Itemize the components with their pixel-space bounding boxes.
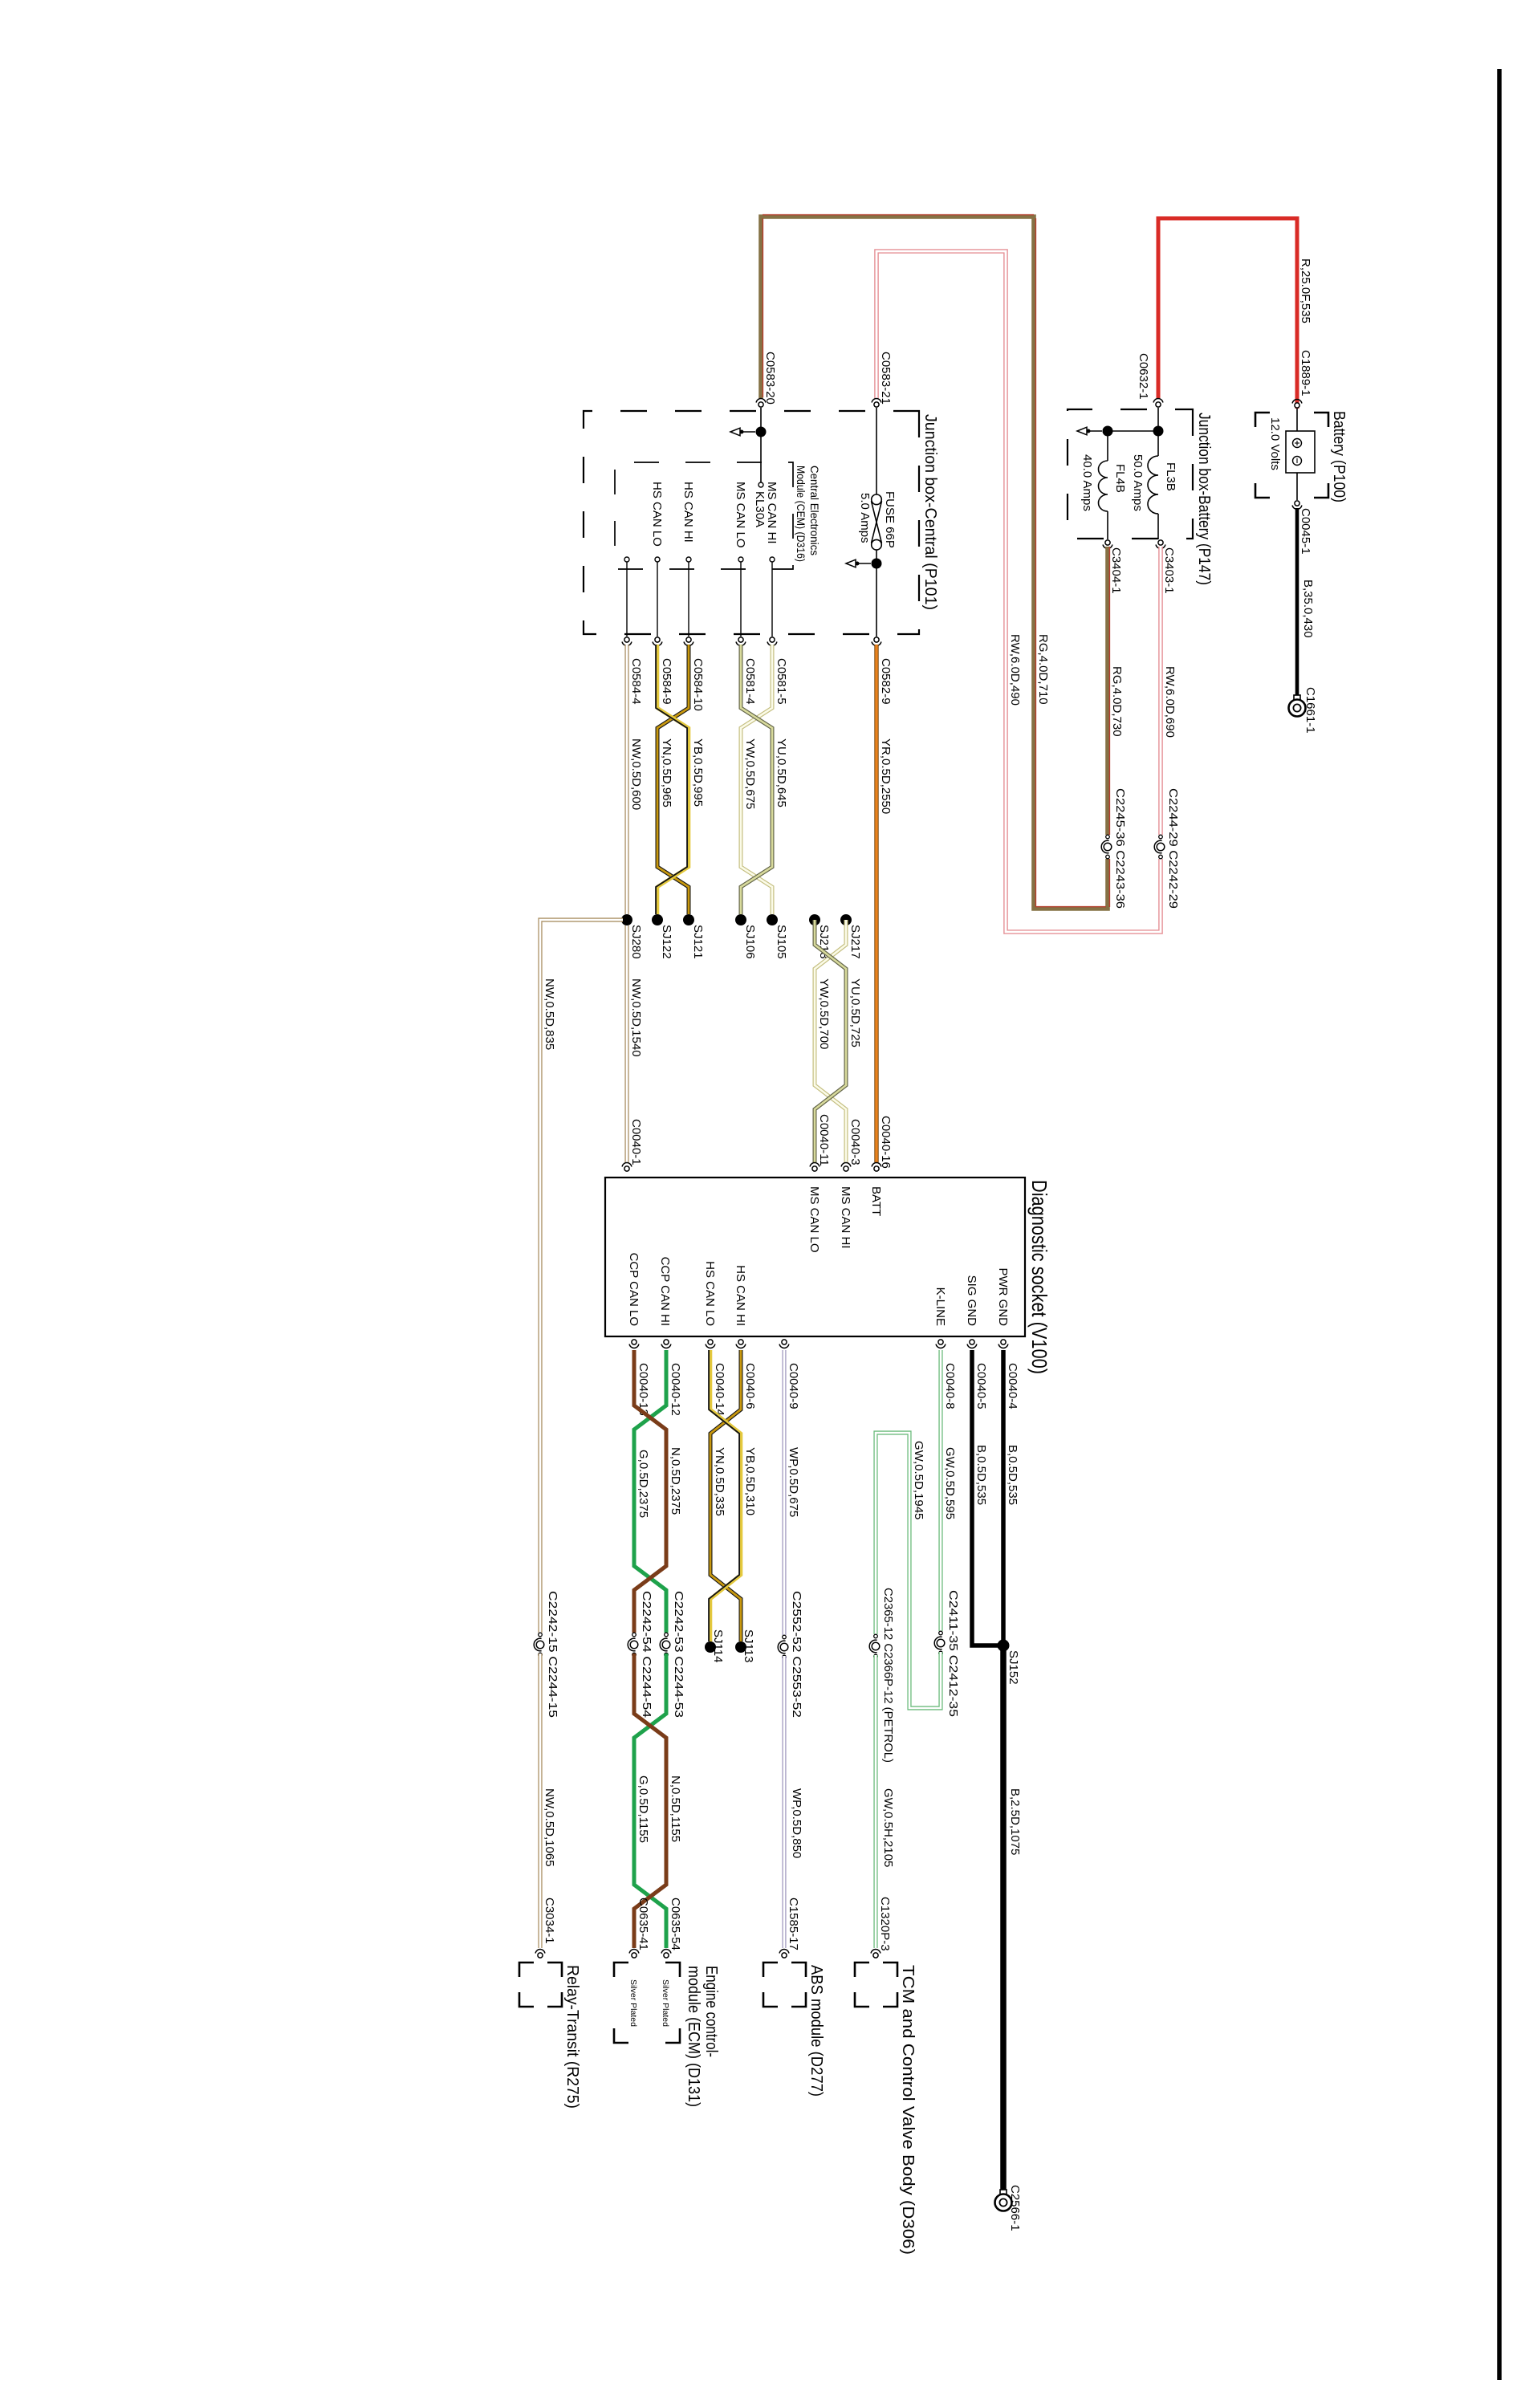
svg-text:C0040-4: C0040-4 <box>1006 1363 1019 1409</box>
connector C0040-11 <box>812 1166 817 1171</box>
connector C0583-21 <box>874 402 879 407</box>
pin shield <box>624 557 629 562</box>
svg-text:YU,0.5D,645: YU,0.5D,645 <box>775 738 788 807</box>
pin MS CAN LO <box>738 557 743 562</box>
wire RW,6.0D,690 / RW,6.0D,490 pink loop <box>876 251 1161 932</box>
svg-text:C0635-41: C0635-41 <box>636 1898 650 1950</box>
wire YU,0.5D,645 MS CAN pair <box>741 645 772 914</box>
connector C0582-9 <box>874 637 879 642</box>
svg-text:HS CAN HI: HS CAN HI <box>681 482 695 543</box>
svg-text:NW,0.5D,1065: NW,0.5D,1065 <box>543 1788 556 1867</box>
svg-text:12.0 Volts: 12.0 Volts <box>1268 417 1282 470</box>
arrow splice fuse output <box>857 563 871 564</box>
connector C0040-9 <box>782 1340 787 1344</box>
svg-text:RG,4.0D,730: RG,4.0D,730 <box>1110 666 1124 737</box>
svg-text:SJ280: SJ280 <box>629 925 643 959</box>
node SJ106 <box>735 914 746 925</box>
connector C0583-20 <box>758 402 763 407</box>
svg-text:HS CAN LO: HS CAN LO <box>703 1261 717 1326</box>
connector C3404-1 <box>1105 540 1110 545</box>
svg-text:RW,6.0D,690: RW,6.0D,690 <box>1163 666 1177 738</box>
page border line <box>1497 69 1502 2380</box>
node SJ280 <box>621 914 632 925</box>
svg-text:YN,0.5D,965: YN,0.5D,965 <box>660 738 673 807</box>
ABS module bracket <box>791 1963 806 1977</box>
svg-text:SJ217: SJ217 <box>848 925 862 959</box>
connector C0040-1 <box>624 1166 629 1171</box>
svg-text:SJ122: SJ122 <box>660 925 673 959</box>
connector C3034-1 <box>538 1953 543 1958</box>
svg-text:C0582-9: C0582-9 <box>879 658 893 705</box>
svg-text:C2411-35 C2412-35: C2411-35 C2412-35 <box>946 1590 960 1717</box>
wire FL3B to C3403-1 <box>1157 514 1159 539</box>
wire FL4B lane <box>1107 431 1108 461</box>
svg-text:B,0.5D,535: B,0.5D,535 <box>974 1445 988 1505</box>
svg-text:K-LINE: K-LINE <box>933 1287 947 1326</box>
svg-text:Relay-Transit (R275): Relay-Transit (R275) <box>563 1965 582 2109</box>
svg-text:N,0.5D,2375: N,0.5D,2375 <box>669 1447 682 1515</box>
svg-text:5.0 Amps: 5.0 Amps <box>858 493 872 543</box>
svg-text:MS CAN LO: MS CAN LO <box>807 1186 821 1253</box>
svg-text:C3404-1: C3404-1 <box>1109 547 1123 594</box>
svg-text:C0584-10: C0584-10 <box>691 658 705 711</box>
svg-text:B,2.5D,1075: B,2.5D,1075 <box>1008 1788 1022 1855</box>
wire NW,0.5D,835 branch <box>540 920 623 1636</box>
svg-text:C1585-17: C1585-17 <box>787 1898 800 1950</box>
svg-text:Battery (P100): Battery (P100) <box>1330 411 1348 502</box>
wire NW,0.5D,600 <box>624 645 628 914</box>
pin HS CAN HI <box>686 557 691 562</box>
svg-text:C2242-54 C2244-54: C2242-54 C2244-54 <box>640 1591 653 1718</box>
connector C0584-9 <box>655 637 660 642</box>
wire fuse output <box>876 550 877 637</box>
TCM and Control Valve Body bracket <box>883 1963 897 1977</box>
pin KL30A <box>758 482 763 487</box>
connector C1320P-3 <box>873 1953 878 1958</box>
svg-text:B,35.0,430: B,35.0,430 <box>1301 580 1315 638</box>
fusible link FL4B <box>1099 461 1108 511</box>
node fuse output junction <box>872 559 882 569</box>
svg-text:SJ114: SJ114 <box>711 1629 725 1662</box>
svg-text:MS CAN HI: MS CAN HI <box>765 482 779 544</box>
svg-text:RG,4.0D,710: RG,4.0D,710 <box>1036 634 1050 705</box>
svg-text:YB,0.5D,995: YB,0.5D,995 <box>691 738 705 807</box>
svg-text:C0040-5: C0040-5 <box>974 1363 988 1409</box>
connector C0635-41 <box>632 1953 636 1958</box>
connector C0040-13 <box>632 1340 636 1344</box>
node SJ121 <box>683 914 694 925</box>
svg-text:YB,0.5D,310: YB,0.5D,310 <box>743 1447 757 1515</box>
wire shield pin to C0584-4 <box>626 562 628 637</box>
wire GW,0.5D,595 K-LINE <box>938 1350 942 1634</box>
wire NW,0.5D,1540 <box>624 925 628 1162</box>
node SJ113 <box>735 1641 746 1653</box>
ground ring terminal C1661-1 <box>1294 695 1300 701</box>
central electronics module CEM dashed box <box>615 462 793 569</box>
node SJ105 <box>767 914 778 925</box>
battery positive terminal <box>1293 439 1302 448</box>
svg-text:C2242-15 C2244-15: C2242-15 C2244-15 <box>546 1591 559 1718</box>
wire B,0.5D,535 SIG GND <box>972 1350 1003 1645</box>
connector C0581-4 <box>738 637 743 642</box>
svg-text:C2244-29 C2242-29: C2244-29 C2242-29 <box>1166 788 1180 909</box>
svg-text:YN,0.5D,335: YN,0.5D,335 <box>713 1447 726 1516</box>
svg-text:C0632-1: C0632-1 <box>1137 353 1150 400</box>
svg-text:N,0.5D,1155: N,0.5D,1155 <box>669 1775 682 1842</box>
node FL3B input junction <box>1153 426 1164 437</box>
connector C0584-10 <box>686 637 691 642</box>
svg-text:Silver Plated: Silver Plated <box>628 1979 638 2027</box>
wire NW,0.5D,1065 <box>538 1653 542 1948</box>
svg-text:SJ105: SJ105 <box>775 925 788 959</box>
svg-text:C0584-4: C0584-4 <box>629 658 643 705</box>
node FL4B input junction <box>1103 426 1113 437</box>
engine control module ECM bracket <box>665 1963 680 1977</box>
battery negative terminal <box>1293 457 1302 466</box>
svg-text:C2245-36 C2243-36: C2245-36 C2243-36 <box>1113 788 1127 909</box>
wire R,25.0F,535 battery positive feed <box>1158 218 1297 409</box>
wire GW,0.5D,1945 loop <box>876 1433 941 1708</box>
svg-text:B,0.5D,535: B,0.5D,535 <box>1006 1445 1019 1505</box>
diagnostic socket (V100) box <box>605 1178 1025 1336</box>
node KL30A junction <box>756 427 767 437</box>
pin MS CAN HI <box>770 557 775 562</box>
svg-text:YW,0.5D,675: YW,0.5D,675 <box>743 738 757 809</box>
svg-text:GW,0.5D,1945: GW,0.5D,1945 <box>912 1441 925 1519</box>
svg-text:SJ106: SJ106 <box>743 925 757 959</box>
wire GW,0.5H,2105 <box>873 1655 877 1948</box>
svg-text:GW,0.5H,2105: GW,0.5H,2105 <box>881 1788 895 1867</box>
svg-text:Central Electronics: Central Electronics <box>808 466 821 555</box>
svg-text:40.0 Amps: 40.0 Amps <box>1080 454 1094 511</box>
svg-text:C0635-54: C0635-54 <box>669 1898 682 1950</box>
node SJ217 <box>840 914 852 925</box>
svg-text:SJ152: SJ152 <box>1007 1650 1020 1685</box>
svg-text:C0040-12: C0040-12 <box>669 1363 682 1416</box>
svg-text:Diagnostic socket (V100): Diagnostic socket (V100) <box>1027 1180 1051 1374</box>
svg-text:module (ECM) (D131): module (ECM) (D131) <box>685 1966 703 2107</box>
svg-text:C0040-9: C0040-9 <box>787 1363 800 1409</box>
svg-text:KL30A: KL30A <box>753 491 767 527</box>
battery box <box>1286 431 1315 473</box>
svg-text:HS CAN LO: HS CAN LO <box>650 482 664 547</box>
wire YR,0.5D,2550 BATT feed to diagnostic socket <box>874 645 878 1162</box>
relay-Transit (R275) bracket <box>547 1963 562 1977</box>
svg-text:WP,0.5D,675: WP,0.5D,675 <box>787 1447 800 1517</box>
wire YB,0.5D,995 HS CAN pair <box>657 645 689 914</box>
wire RG,4.0D,730 / RG,4.0D,710 brown loop <box>761 217 1108 909</box>
svg-text:Silver Plated: Silver Plated <box>661 1979 670 2027</box>
svg-text:YR,0.5D,2550: YR,0.5D,2550 <box>879 738 893 814</box>
node SJ122 <box>652 914 663 925</box>
node SJ152 <box>998 1640 1010 1652</box>
svg-text:Engine control-: Engine control- <box>702 1966 721 2057</box>
wire B,2.5D,1075 <box>1000 1645 1007 2190</box>
wire KL30A feed <box>760 408 762 482</box>
svg-text:50.0 Amps: 50.0 Amps <box>1131 454 1145 511</box>
inline connector C2411-35 C2412-35 <box>933 1631 948 1655</box>
svg-text:C0040-3: C0040-3 <box>848 1119 862 1165</box>
svg-text:SIG GND: SIG GND <box>965 1275 978 1327</box>
svg-text:C0583-21: C0583-21 <box>879 352 893 405</box>
inline connector C2244-29 C2242-29 <box>1153 835 1168 859</box>
connector C1889-1 <box>1295 403 1299 408</box>
connector C0584-4 <box>624 637 629 642</box>
wire YU,0.5D,725 to diagnostic socket <box>815 920 846 1162</box>
arrow splice feed <box>1088 430 1102 432</box>
svg-text:C0045-1: C0045-1 <box>1299 508 1312 555</box>
connector C0040-8 <box>938 1340 943 1344</box>
wire N,0.5D,2375 CCP CAN pair <box>634 1350 666 1636</box>
svg-text:GW,0.5D,595: GW,0.5D,595 <box>943 1447 957 1519</box>
fuse FUSE 66P 5.0 Amps <box>872 494 882 505</box>
svg-text:NW,0.5D,1540: NW,0.5D,1540 <box>629 978 643 1057</box>
connector C0581-5 <box>770 637 775 642</box>
connector C0040-4 <box>1001 1340 1006 1344</box>
svg-text:WP,0.5D,850: WP,0.5D,850 <box>790 1788 803 1858</box>
wire FL3B lane <box>1157 408 1159 456</box>
svg-text:FL4B: FL4B <box>1113 464 1127 493</box>
svg-text:Module (CEM) (D316): Module (CEM) (D316) <box>795 466 807 562</box>
wire N,0.5D,1155 CCP CAN pair to ECM <box>634 1653 666 1948</box>
svg-text:C0581-5: C0581-5 <box>775 658 788 705</box>
wire YB,0.5D,310 HS CAN pair to splice <box>710 1350 741 1641</box>
node SJ114 <box>705 1641 716 1653</box>
svg-text:FUSE 66P: FUSE 66P <box>883 491 897 548</box>
svg-text:G,0.5D,2375: G,0.5D,2375 <box>636 1450 650 1518</box>
wire battery internal <box>1296 409 1298 431</box>
ground ring terminal C2566-1 <box>1000 2190 1007 2195</box>
wire HS CAN LO to C0584-9 <box>657 562 658 637</box>
arrow splice KL30A <box>742 431 755 433</box>
svg-text:C0040-6: C0040-6 <box>743 1363 757 1409</box>
junction box-Battery (P147) dashed box <box>1068 409 1193 539</box>
wire MS CAN LO to C0581-4 <box>740 562 742 637</box>
svg-text:C0040-14: C0040-14 <box>713 1363 726 1416</box>
svg-text:C0040-16: C0040-16 <box>879 1116 893 1169</box>
svg-text:C0581-4: C0581-4 <box>743 658 757 705</box>
inline connector C2245-36 C2243-36 <box>1100 835 1115 859</box>
svg-text:SJ121: SJ121 <box>691 925 705 959</box>
svg-text:C0040-11: C0040-11 <box>817 1114 831 1166</box>
svg-text:R,25.0F,535: R,25.0F,535 <box>1299 258 1312 323</box>
wire WP,0.5D,850 <box>782 1656 786 1948</box>
svg-text:C2242-53 C2244-53: C2242-53 C2244-53 <box>672 1591 685 1718</box>
connector C1585-17 <box>782 1953 787 1958</box>
svg-text:BATT: BATT <box>869 1186 883 1216</box>
svg-text:CCP CAN HI: CCP CAN HI <box>658 1257 672 1326</box>
wire MS CAN HI to C0581-5 <box>771 562 773 637</box>
inline connector C2552-52 C2553-52 <box>777 1635 791 1659</box>
connector C0040-3 <box>844 1166 848 1171</box>
svg-text:C0584-9: C0584-9 <box>660 658 673 705</box>
connector C0040-16 <box>874 1166 879 1171</box>
svg-text:FL3B: FL3B <box>1164 462 1177 491</box>
svg-text:C2365-12 C2366P-12 (PETROL): C2365-12 C2366P-12 (PETROL) <box>881 1588 895 1763</box>
connector C0045-1 <box>1295 501 1299 506</box>
inline connector C2365-12 C2366P-12 <box>868 1634 883 1658</box>
inline connector C2242-53 C2244-53 <box>659 1633 673 1657</box>
svg-text:C1320P-3: C1320P-3 <box>878 1897 892 1951</box>
wire branch to FL4B <box>1108 430 1158 432</box>
connector C0040-12 <box>664 1340 669 1344</box>
svg-text:RW,6.0D,490: RW,6.0D,490 <box>1008 634 1022 706</box>
svg-text:G,0.5D,1155: G,0.5D,1155 <box>636 1775 650 1843</box>
svg-text:ABS module (D277): ABS module (D277) <box>807 1965 826 2097</box>
connector C0040-14 <box>708 1340 713 1344</box>
svg-text:C0040-8: C0040-8 <box>943 1363 957 1409</box>
fusible link FL3B <box>1148 456 1158 514</box>
pin HS CAN LO <box>655 557 660 562</box>
svg-text:MS CAN LO: MS CAN LO <box>734 482 747 548</box>
svg-text:C2552-52 C2553-52: C2552-52 C2553-52 <box>790 1591 803 1718</box>
svg-text:C1889-1: C1889-1 <box>1299 350 1312 397</box>
svg-text:TCM and Control Valve Body (D3: TCM and Control Valve Body (D306) <box>899 1965 917 2255</box>
svg-text:C0040-1: C0040-1 <box>629 1119 643 1165</box>
svg-text:NW,0.5D,600: NW,0.5D,600 <box>629 738 643 810</box>
connector C0040-6 <box>738 1340 743 1344</box>
wire HS CAN HI to C0584-10 <box>688 562 689 637</box>
battery P100 bracket <box>1314 413 1328 427</box>
svg-text:HS CAN HI: HS CAN HI <box>734 1265 747 1326</box>
svg-text:YW,0.5D,700: YW,0.5D,700 <box>817 978 831 1049</box>
svg-text:NW,0.5D,835: NW,0.5D,835 <box>543 978 556 1050</box>
svg-text:C3403-1: C3403-1 <box>1162 547 1176 594</box>
wire WP,0.5D,675 <box>782 1350 786 1638</box>
wire fuse 66P lane <box>876 408 877 494</box>
connector C0635-54 <box>664 1953 669 1958</box>
connector C0040-5 <box>970 1340 974 1344</box>
wire B,35.0,430 battery ground <box>1295 508 1299 695</box>
connector C0632-1 <box>1156 402 1161 407</box>
wire B,0.5D,535 PWR GND <box>1001 1350 1006 1645</box>
svg-text:CCP CAN LO: CCP CAN LO <box>627 1253 641 1326</box>
inline connector C2242-15 C2244-15 <box>533 1633 547 1657</box>
svg-text:Junction box-Central (P101): Junction box-Central (P101) <box>921 414 940 610</box>
inline connector C2242-54 C2244-54 <box>627 1633 641 1657</box>
connector C3403-1 <box>1158 540 1163 545</box>
svg-text:Junction box-Battery (P147): Junction box-Battery (P147) <box>1195 413 1214 585</box>
svg-text:MS CAN HI: MS CAN HI <box>839 1186 852 1249</box>
svg-text:YU,0.5D,725: YU,0.5D,725 <box>848 978 862 1047</box>
svg-text:SJ113: SJ113 <box>742 1629 755 1662</box>
svg-text:C0583-20: C0583-20 <box>763 352 777 405</box>
wire FL4B to C3404-1 <box>1107 511 1108 539</box>
svg-text:PWR GND: PWR GND <box>996 1268 1010 1327</box>
node SJ218 <box>809 914 820 925</box>
junction box-Central (P101) dashed box <box>584 411 919 634</box>
svg-text:C3034-1: C3034-1 <box>543 1898 556 1944</box>
